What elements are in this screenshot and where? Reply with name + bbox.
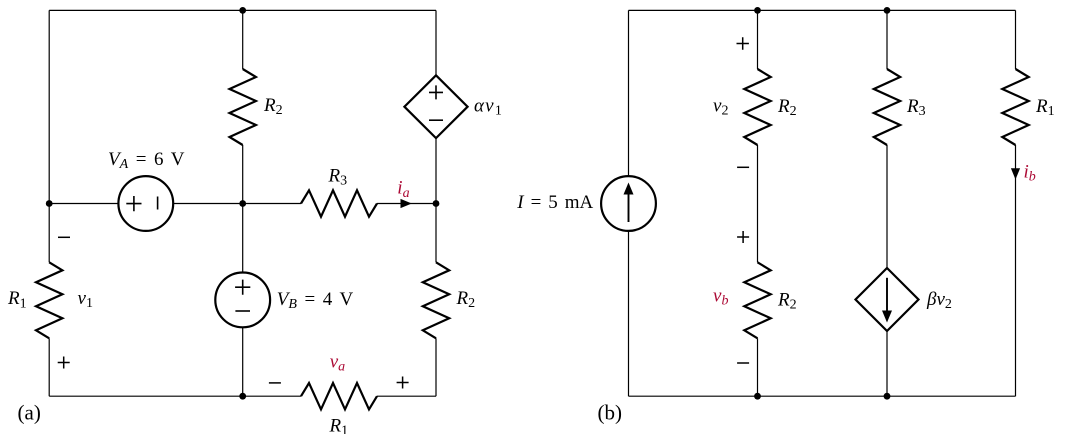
wire: middle branch lead from R2 down to center node <box>242 145 244 204</box>
junction: bottom node (a) <box>239 393 246 400</box>
svg-text:R2: R2 <box>456 288 476 311</box>
wire: lead from center node to R3 <box>243 203 301 205</box>
wire: circuit (b) top rail <box>629 9 1016 11</box>
svg-text:ib: ib <box>1024 162 1036 185</box>
svg-text:R3: R3 <box>328 166 348 189</box>
svg-text:R3: R3 <box>906 96 926 119</box>
wire: lead from dependent source to bottom rail (b) <box>886 331 888 396</box>
svg-text:R1: R1 <box>1035 96 1055 119</box>
junction: top node of middle branch (a) <box>239 7 246 14</box>
polarity plus (top of branch 1) <box>737 37 749 49</box>
svg-text:va: va <box>330 352 345 375</box>
resistor R2 (b, lower) <box>744 262 770 338</box>
junction: top node of branch 2 (b) <box>884 7 891 14</box>
wire: middle branch upper lead into R2 <box>242 10 244 69</box>
svg-text:(b): (b) <box>598 400 623 424</box>
wire: circuit (a) bottom rail left segment <box>49 395 301 397</box>
wire: circuit (a) left rail upper segment <box>48 10 50 203</box>
dependent source alpha*v1 (diamond) <box>404 75 467 138</box>
svg-text:v2: v2 <box>713 96 728 119</box>
junction: bottom node of branch 2 (b) <box>884 393 891 400</box>
svg-text:αv1: αv1 <box>474 96 503 119</box>
voltage source VB with leads <box>242 204 244 273</box>
wire: lead from VA to center node <box>173 203 243 205</box>
svg-text:VA = 6 V: VA = 6 V <box>108 149 185 172</box>
polarity minus (below upper R2) <box>737 166 749 168</box>
polarity plus (above lower R2) <box>737 231 749 243</box>
current source I with leads <box>628 10 630 176</box>
wire: circuit (a) right rail top lead to dependent source <box>435 10 437 75</box>
resistor R3 (b) with leads <box>886 10 888 69</box>
dependent source beta*v2 (diamond with down arrow) <box>856 268 919 331</box>
svg-text:ia: ia <box>397 178 409 201</box>
svg-text:VB = 4 V: VB = 4 V <box>277 289 354 312</box>
polarity minus (left of bottom R1) <box>269 382 281 384</box>
junction: right node (a) <box>433 200 440 207</box>
wire: circuit (a) top rail <box>49 9 436 11</box>
polarity minus (bottom of branch 1) <box>737 362 749 364</box>
svg-text:(a): (a) <box>18 400 41 424</box>
wire: lead from dependent source down to right node <box>435 138 437 203</box>
resistor R2 (a, middle branch) <box>230 69 256 145</box>
wire: circuit (a) bottom rail right segment <box>377 395 436 397</box>
wire: circuit (b) bottom rail <box>629 395 1016 397</box>
polarity minus (top of left branch) <box>58 236 70 238</box>
junction: left node (a) <box>46 200 53 207</box>
svg-text:I = 5 mA: I = 5 mA <box>516 192 593 213</box>
resistor R3 (a) <box>301 190 377 216</box>
svg-text:v1: v1 <box>78 288 93 311</box>
junction: top node of branch 1 (b) <box>754 7 761 14</box>
svg-text:R1: R1 <box>7 288 27 311</box>
polarity plus (bottom of left branch) <box>58 357 70 369</box>
wire: lead from R3 to right node <box>377 203 436 205</box>
svg-text:R2: R2 <box>263 95 283 118</box>
wire: lead from left node to voltage source VA <box>49 203 118 205</box>
resistor R1 (b, right branch) with leads <box>1015 10 1017 69</box>
svg-text:vb: vb <box>713 286 728 309</box>
polarity plus (right of bottom R1) <box>397 377 409 389</box>
voltage source VA (circle with + and rotated minus) <box>118 176 173 231</box>
svg-text:R2: R2 <box>777 289 797 312</box>
junction: bottom node of branch 1 (b) <box>754 393 761 400</box>
current arrow ib on right branch <box>1011 168 1020 179</box>
current arrow ia on wire <box>401 199 412 208</box>
svg-text:R1: R1 <box>329 415 349 434</box>
resistor R1 (a, bottom) <box>301 383 377 409</box>
resistor R1 (a, left branch) with leads <box>48 204 50 263</box>
svg-text:R2: R2 <box>777 96 797 119</box>
resistor R2 (b, upper) with leads <box>757 10 759 69</box>
resistor R2 (a, right branch) with leads <box>435 204 437 263</box>
junction: center node (a) <box>239 200 246 207</box>
svg-text:βv2: βv2 <box>926 289 952 312</box>
